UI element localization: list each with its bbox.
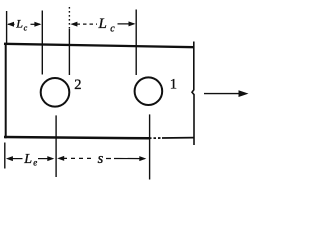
svg-text:L: L xyxy=(98,16,107,32)
dimension Lc left: arrow right xyxy=(31,22,42,27)
dimension Le: arrow right xyxy=(38,156,54,161)
dimension Lc left: arrow left xyxy=(7,22,15,27)
svg-text:s: s xyxy=(98,151,104,167)
dimension s: arrow right xyxy=(106,156,146,161)
hole 2 (left circle) xyxy=(41,78,70,107)
extension line top at hole 1 left edge xyxy=(135,10,137,76)
svg-text:c: c xyxy=(110,23,115,34)
plate right edge (with jog at load arrow) xyxy=(192,42,194,146)
svg-text:1: 1 xyxy=(170,77,177,93)
label Le xyxy=(23,152,37,168)
svg-text:e: e xyxy=(33,158,37,168)
label Lc left xyxy=(15,17,27,33)
svg-text:c: c xyxy=(24,23,28,32)
dimension s: arrow left xyxy=(57,156,95,161)
dimension Lc mid: arrow right (at hole 1 left edge) xyxy=(118,21,136,26)
extension line top at hole 2 left edge xyxy=(41,11,43,75)
label Lc mid xyxy=(98,16,116,34)
plate top edge xyxy=(4,44,194,47)
dimension Lc mid: arrow left (at hole 2 right edge) xyxy=(70,22,97,27)
extension line bottom at plate left edge xyxy=(4,143,6,169)
svg-text:L: L xyxy=(15,17,23,31)
svg-text:L: L xyxy=(23,152,32,167)
extension line bottom under hole 2 center xyxy=(55,115,57,177)
extension line top at plate left edge xyxy=(6,11,8,43)
dimension Le: arrow left xyxy=(6,156,23,161)
extension line top at hole 2 right edge (dotted above) xyxy=(68,7,70,75)
svg-text:2: 2 xyxy=(74,77,81,93)
hole 1 (right circle) xyxy=(135,77,163,105)
load arrow (force P to the right) xyxy=(204,90,249,97)
plate bottom edge xyxy=(4,137,194,138)
extension line bottom under hole 1 center xyxy=(149,114,151,179)
plate left edge xyxy=(5,43,7,138)
